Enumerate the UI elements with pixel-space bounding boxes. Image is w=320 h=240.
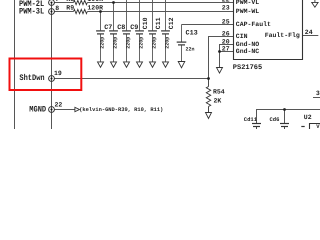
svg-text:MGND: MGND	[29, 105, 46, 115]
svg-text:23: 23	[222, 5, 230, 12]
ground arrow (Gnd net)	[217, 68, 223, 74]
svg-text:3: 3	[316, 90, 320, 97]
terminal ShtDwn	[49, 76, 55, 82]
wire row1 to chip	[87, 2, 233, 4]
svg-text:V: V	[316, 123, 320, 129]
svg-text:C7: C7	[104, 24, 112, 32]
svg-text:C11: C11	[155, 17, 162, 29]
svg-text:Fault-Flg: Fault-Flg	[265, 32, 300, 39]
svg-text:Cd11: Cd11	[244, 116, 258, 123]
svg-text:220p: 220p	[113, 37, 119, 49]
svg-text:Gnd-NC: Gnd-NC	[236, 48, 260, 55]
svg-text:C9: C9	[130, 24, 138, 32]
ground arrow (C11)	[150, 62, 156, 67]
junction dot Cd6	[283, 108, 286, 111]
svg-text:Gnd-NO: Gnd-NO	[236, 41, 260, 48]
svg-text:R9: R9	[66, 5, 74, 12]
arrow right (kelvin note)	[75, 107, 80, 111]
IC U1 PS21765 body outline	[234, 0, 303, 60]
resistor R54 (vertical)	[206, 79, 210, 113]
wire pin26 CIN down to junction	[209, 37, 234, 79]
svg-text:220p: 220p	[139, 37, 145, 49]
svg-text:220p: 220p	[100, 37, 106, 49]
capacitor C8	[109, 3, 118, 62]
red highlight box	[10, 59, 82, 91]
wire pin27 Gnd-NC	[220, 51, 234, 53]
ground arrow (C9)	[124, 62, 130, 67]
svg-text:8: 8	[55, 5, 59, 12]
svg-text:C10: C10	[142, 17, 149, 29]
svg-text:PWM-VL: PWM-VL	[236, 0, 260, 6]
IC U2 box corner	[310, 124, 320, 130]
svg-text:24: 24	[305, 29, 313, 36]
svg-text:CIN: CIN	[236, 33, 248, 40]
resistor R8 (clipped top)	[74, 0, 88, 4]
wire vertical bus	[51, 3, 53, 130]
ground arrow (C7)	[98, 62, 104, 67]
wire pin24 stub	[303, 35, 319, 37]
wire row2 to chip	[87, 11, 233, 13]
svg-text:22n: 22n	[186, 47, 195, 53]
svg-text:CAP-Fault: CAP-Fault	[236, 21, 271, 28]
junction dot row1/C8	[112, 1, 115, 4]
svg-text:PS21765: PS21765	[233, 64, 262, 72]
capacitor C12	[161, 0, 170, 62]
wire row1 PWM-2L lead	[54, 2, 73, 4]
capacitor C10	[135, 0, 144, 62]
wire pin25 row to C13	[182, 24, 234, 26]
svg-text:220p: 220p	[165, 37, 171, 49]
ground arrow (C10)	[137, 62, 143, 67]
capacitor Cd6	[280, 124, 289, 130]
wire Gnd-NC net stem	[219, 52, 221, 68]
svg-text:Cd6: Cd6	[270, 116, 280, 123]
svg-text:(kelvin-GND-R39, R10, R11): (kelvin-GND-R39, R10, R11)	[79, 107, 163, 113]
junction dot ShtDwn/CIN/R54	[207, 77, 210, 80]
svg-text:22: 22	[55, 101, 63, 108]
svg-text:ShtDwn: ShtDwn	[19, 73, 44, 84]
svg-text:PWM-WL: PWM-WL	[236, 8, 260, 15]
wire pin3 stub	[313, 97, 320, 99]
ground arrow (C8)	[111, 62, 117, 67]
svg-text:22: 22	[222, 0, 230, 3]
svg-text:20: 20	[222, 38, 230, 45]
wire row2 PWM-3L lead	[54, 11, 73, 13]
wire Cd6 drop	[284, 110, 286, 124]
terminal MGND	[49, 107, 55, 113]
capacitor plate fragment left of U2	[301, 126, 304, 128]
svg-text:2K: 2K	[214, 97, 222, 104]
svg-text:27: 27	[222, 45, 230, 52]
ground arrow (C13)	[178, 62, 185, 68]
capacitor Cd11	[252, 124, 261, 130]
svg-text:7: 7	[55, 0, 59, 3]
svg-text:U2: U2	[304, 114, 312, 121]
svg-text:120R: 120R	[87, 5, 103, 12]
wire MGND lead	[54, 109, 75, 111]
svg-text:220p: 220p	[126, 37, 132, 49]
svg-text:26: 26	[222, 30, 230, 37]
junction dot row2/C7	[99, 10, 102, 13]
junction dot Gnd-NO/Gnd-NC	[218, 50, 221, 53]
svg-text:C12: C12	[168, 17, 175, 29]
terminal PWM-3L	[49, 9, 55, 15]
svg-text:C13: C13	[186, 29, 198, 37]
ground arrow (C12)	[163, 62, 169, 67]
svg-text:19: 19	[54, 70, 62, 77]
capacitor C13	[177, 25, 187, 62]
wire bottom-right bus	[257, 110, 320, 124]
capacitor C7	[96, 12, 105, 62]
svg-text:R8: R8	[66, 0, 74, 3]
terminal PWM-2L	[49, 0, 55, 5]
svg-text:R54: R54	[213, 88, 225, 95]
resistor R9	[74, 9, 88, 13]
svg-text:25: 25	[222, 18, 230, 25]
svg-text:PWM-3L: PWM-3L	[19, 8, 44, 18]
wire vertical border line left	[14, 0, 16, 129]
ground arrow (R54)	[206, 113, 212, 119]
capacitor C9	[122, 0, 131, 62]
svg-text:100R: 100R	[87, 0, 103, 3]
wire ShtDwn row	[54, 78, 208, 80]
capacitor C11	[148, 0, 157, 62]
svg-text:220p: 220p	[152, 37, 158, 49]
svg-text:C8: C8	[117, 24, 125, 32]
wire pin20 Gnd-NO	[220, 45, 234, 52]
ground arrow (top right)	[314, 0, 316, 2]
